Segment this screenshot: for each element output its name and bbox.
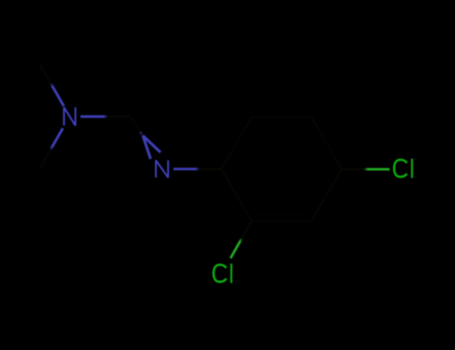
aromatic inner line C2-C3 [258, 213, 306, 215]
bond N1-CH [81, 115, 131, 118]
bond C4-Cl right [342, 168, 390, 171]
bond C2-Cl bottom [231, 221, 252, 258]
aromatic inner line C6-C1 [232, 128, 246, 152]
benzene ring edge C6-C5 [252, 116, 312, 118]
node Cl bottom : C [214, 265, 227, 282]
benzene ring edge C3-C2 [252, 220, 312, 222]
double bond CH=N2 blue line 2 [143, 136, 151, 159]
node Cl right : l [411, 159, 413, 178]
aromatic inner line C4-C5 [318, 128, 332, 152]
benzene ring edge C4-C3 [312, 169, 342, 221]
double bond CH=N2 fade [140, 132, 142, 135]
node N2 [156, 160, 168, 177]
benzene ring edge C1-C6 [222, 117, 252, 169]
node N1 [64, 107, 75, 125]
benzene ring edge C2-C1 [222, 169, 252, 221]
benzene ring edge C5-C4 [312, 117, 342, 169]
node Cl bottom : l [230, 264, 232, 283]
node Cl right : C [394, 160, 407, 177]
bond N1-CH3b (methyl) [40, 128, 63, 168]
bond N1-CH3a (methyl) [40, 64, 64, 106]
double bond CH=N2 dark half [131, 117, 142, 135]
bond N2-C1 [173, 168, 221, 171]
double bond CH=N2 blue line 1 [143, 136, 161, 153]
